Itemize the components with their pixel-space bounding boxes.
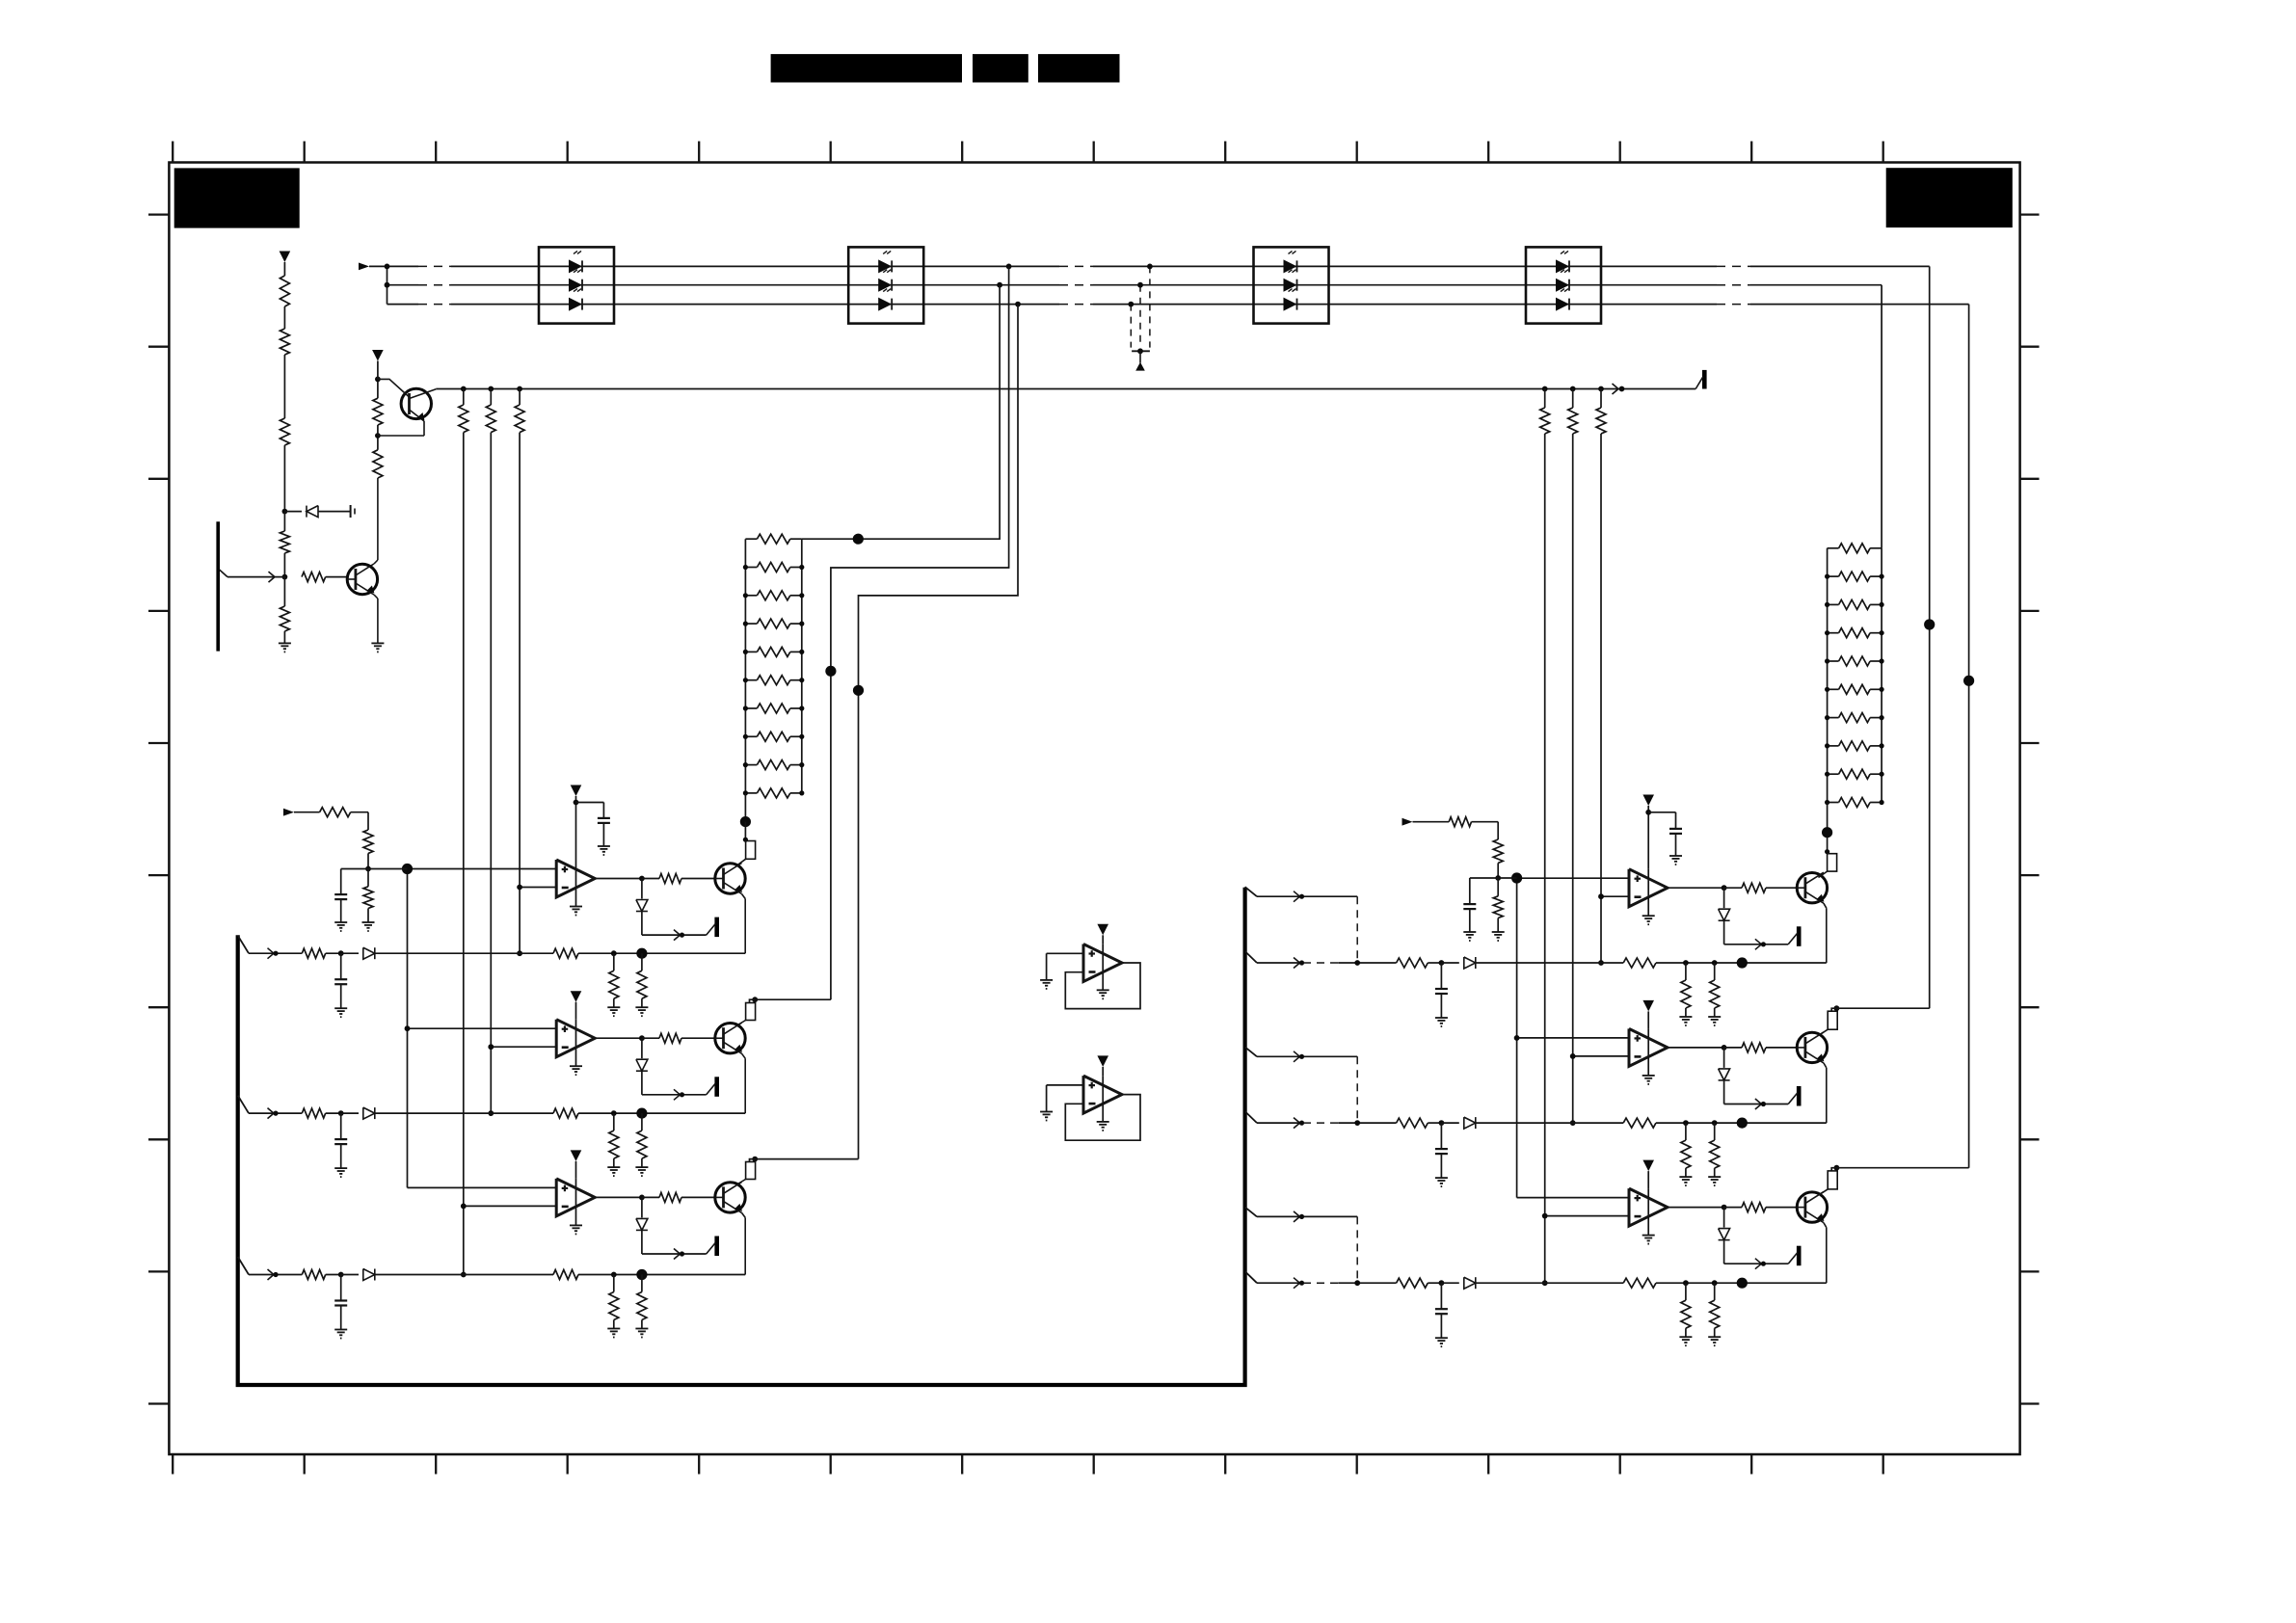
resistor to ground B — [1714, 1283, 1716, 1300]
resistor R6 base — [302, 572, 326, 582]
resistor bank left R1 — [461, 386, 467, 392]
diode stub — [641, 879, 643, 899]
border frame — [169, 163, 2019, 1455]
wire drop to QR3 collector — [1834, 1165, 1840, 1171]
wire emitter to feedback — [742, 1212, 746, 1217]
wire bus tap lower ch3 — [1245, 1271, 1257, 1283]
wire bank right verticals — [1544, 434, 1546, 1283]
power arrow — [571, 1150, 582, 1161]
wire bus line2 drop to ladder — [997, 282, 1002, 288]
resistor feedback — [553, 1270, 578, 1280]
wire bus line1 drop right — [1929, 266, 1931, 1008]
wire emitter to feedback — [742, 894, 746, 899]
power arrow — [1097, 1055, 1108, 1067]
wire drop to QL2 collector — [752, 997, 758, 1002]
resistor to ground right — [1497, 878, 1499, 896]
wire — [283, 355, 285, 418]
resistor to ground A — [1685, 1123, 1687, 1140]
dashed drop — [1356, 1056, 1358, 1123]
wire emitter to feedback — [1824, 1223, 1827, 1228]
op-amp ground — [1102, 945, 1104, 991]
wire bus tap lower ch1 — [1245, 951, 1257, 963]
wire output — [595, 878, 642, 880]
wire - input — [1601, 895, 1629, 897]
resistor ladder left R8 — [757, 732, 789, 741]
resistor to ground A — [1685, 963, 1687, 980]
op-amp buffer U5 — [1083, 945, 1122, 982]
power arrow — [571, 991, 582, 1002]
wire output — [1668, 887, 1724, 889]
wire Q2 collector up — [374, 560, 378, 564]
wire - input — [464, 1205, 556, 1207]
resistor feedback — [1623, 1278, 1656, 1288]
wire bus line2 — [387, 284, 419, 286]
wire ladder left rails — [744, 539, 746, 793]
resistor bank left R2 — [488, 386, 494, 392]
diode stub — [1723, 888, 1725, 908]
capacitor — [1440, 963, 1442, 989]
resistor to ground — [367, 869, 369, 887]
op-amp ground — [1647, 1028, 1649, 1076]
op-amp UR2 — [1629, 1028, 1668, 1066]
resistor to ground B — [641, 1113, 643, 1131]
power arrow ch1 right — [1642, 795, 1654, 807]
diode stub — [641, 1038, 643, 1058]
wire bus line3 drop — [1015, 302, 1021, 307]
wire emitter to feedback — [742, 1053, 746, 1058]
transistor QR2 — [1797, 1032, 1827, 1062]
resistor input — [1397, 1278, 1428, 1288]
wire bus line1 drop — [1006, 264, 1012, 270]
test point bars — [350, 505, 352, 518]
wire ladder to QL1 collector — [744, 793, 746, 822]
wire + input — [408, 1027, 557, 1029]
resistor ladder right R10 — [1839, 798, 1871, 808]
wire + node — [341, 868, 408, 870]
resistor ladder left R9 — [757, 760, 789, 770]
capacitor — [340, 1275, 342, 1301]
resistor bank right R2 — [1570, 386, 1576, 392]
transistor QL3 — [715, 1183, 745, 1212]
connector drop with dashed leads — [1130, 305, 1132, 348]
power arrow ch1 left — [571, 785, 582, 797]
resistor ladder left R5 — [757, 647, 789, 656]
wire long rail — [436, 388, 1695, 390]
wire bus line1 — [369, 265, 418, 267]
diode stub — [641, 1197, 643, 1217]
input arrow J3 — [1402, 818, 1413, 826]
resistor ladder right R8 — [1839, 741, 1871, 751]
connector pin — [714, 1237, 719, 1257]
resistor to ground A — [613, 953, 615, 971]
connector pin P1 — [1702, 370, 1707, 389]
resistor input — [302, 948, 325, 958]
op-amp UL2 — [556, 1020, 595, 1057]
op-amp ground — [1647, 1188, 1649, 1236]
resistor ladder right R6 — [1839, 684, 1871, 694]
resistor bank left R3 — [517, 386, 522, 392]
resistor R4 — [283, 512, 285, 531]
resistor ladder left R4 — [757, 619, 789, 628]
wire output — [595, 1037, 642, 1039]
transistor QR1 — [1797, 873, 1827, 903]
resistor feedback — [1623, 1118, 1656, 1128]
resistor R3 — [280, 418, 289, 445]
op-amp ground — [575, 1020, 577, 1067]
diode stub — [1723, 1048, 1725, 1068]
wire output — [595, 1196, 642, 1198]
wire bus tap left ch2 — [238, 1096, 249, 1114]
resistor to ground A — [613, 1113, 615, 1131]
op-amp ground — [575, 860, 577, 907]
resistor ladder left R2 — [757, 563, 789, 572]
supply arrow up — [1135, 362, 1145, 371]
resistor base — [642, 878, 659, 880]
transistor QL1 — [715, 864, 745, 893]
wire + input — [1517, 877, 1629, 879]
resistor input — [1397, 958, 1428, 968]
connector pin — [714, 1077, 719, 1097]
wire Q1 emitter loop — [410, 410, 425, 421]
resistor ladder left R3 — [757, 591, 789, 600]
resistor bank right R1 — [1542, 386, 1548, 392]
resistor input — [320, 808, 351, 817]
wire - input — [520, 887, 556, 889]
wire + input to ground — [1047, 952, 1083, 954]
resistor input — [302, 1270, 325, 1280]
op-amp ground — [575, 1179, 577, 1226]
resistor ladder right R9 — [1839, 769, 1871, 779]
diode block D3 — [1254, 247, 1329, 323]
wire + input — [1517, 1037, 1629, 1039]
diode — [341, 1112, 359, 1114]
thick bus line — [238, 888, 1245, 1385]
bus bar stub — [216, 521, 220, 651]
capacitor C4 — [1469, 878, 1471, 904]
resistor to ground B — [1714, 963, 1716, 980]
resistor base — [642, 1037, 659, 1039]
resistor R8 — [377, 425, 379, 436]
resistor input — [302, 1108, 325, 1118]
wire bank left verticals — [463, 433, 465, 1275]
resistor feedback — [553, 948, 578, 958]
diode — [341, 952, 359, 954]
top-left label redacted — [174, 168, 300, 227]
resistor to ground B — [641, 953, 643, 971]
power arrow — [1642, 1160, 1654, 1172]
wire Q2 emitter to ground — [374, 595, 378, 599]
wire bus tap upper ch3 — [1245, 1207, 1257, 1216]
wire bus line3 drop right — [1968, 305, 1970, 1168]
diode — [1441, 962, 1458, 964]
resistor ladder right R2 — [1839, 572, 1871, 581]
resistor divider — [367, 812, 369, 830]
resistor base — [1724, 1207, 1742, 1209]
wire bus tap upper ch1 — [1245, 887, 1257, 896]
diode — [1441, 1122, 1458, 1124]
frame tick marks — [172, 142, 174, 163]
wire + node right — [1470, 877, 1517, 879]
resistor base — [642, 1196, 659, 1198]
power arrow — [1642, 1000, 1654, 1012]
capacitor — [340, 1113, 342, 1139]
diode block D4 — [1526, 247, 1601, 323]
resistor ladder right R1 — [1839, 544, 1871, 553]
connector pin — [714, 918, 719, 938]
ground — [279, 642, 291, 644]
resistor ladder right R5 — [1839, 656, 1871, 666]
bus tie vertical — [387, 266, 388, 304]
transistor Q1 — [401, 388, 431, 418]
wire Q1 base — [378, 379, 410, 397]
op-amp UR3 — [1629, 1188, 1668, 1226]
resistor to ground A — [613, 1275, 615, 1292]
wire Q1 collector to rail — [410, 389, 437, 399]
power arrow V1 — [280, 252, 291, 263]
resistor ladder right R7 — [1839, 713, 1871, 723]
resistor base — [1724, 1047, 1742, 1049]
wire + input — [1517, 1197, 1629, 1199]
title block redacted — [771, 54, 962, 82]
capacitor — [340, 953, 342, 979]
wire output — [1668, 1207, 1724, 1209]
wire drop to QL3 collector — [752, 1157, 758, 1162]
resistor R2 — [283, 306, 285, 329]
wire bus line3 — [387, 304, 419, 306]
diode block D2 — [848, 247, 923, 323]
resistor R7 — [373, 450, 383, 478]
connector pin — [1797, 1086, 1802, 1106]
dashed drop — [1356, 1216, 1358, 1283]
wire emitter to feedback — [1824, 1063, 1827, 1068]
capacitor C3 — [1648, 811, 1675, 813]
wire bus line2 to right ladder — [1881, 285, 1882, 548]
resistor input right — [1449, 817, 1471, 827]
dashed drop — [1356, 896, 1358, 963]
power arrow V2 — [372, 350, 384, 361]
resistor ladder left R7 — [757, 704, 789, 713]
wire + input to ground — [1047, 1084, 1083, 1086]
op-amp UR1 — [1629, 869, 1668, 907]
wire emitter to feedback — [1824, 903, 1827, 908]
resistor divider right — [1497, 822, 1499, 839]
top-right label redacted — [1886, 168, 2013, 227]
transistor Q2 — [347, 564, 377, 594]
capacitor C2 — [340, 869, 342, 895]
wire + input — [408, 1186, 557, 1188]
transistor QL2 — [715, 1024, 745, 1053]
op-amp ground — [1102, 1076, 1104, 1122]
connector pin — [1797, 926, 1802, 946]
wire output — [1668, 1047, 1724, 1049]
power arrow — [1097, 924, 1108, 936]
wire + bus right — [1516, 878, 1518, 1198]
wire + bus left — [407, 869, 409, 1188]
transistor QR3 — [1797, 1192, 1827, 1222]
op-amp ground — [1647, 869, 1649, 917]
resistor feedback — [1623, 958, 1656, 968]
capacitor — [1440, 1123, 1442, 1149]
op-amp buffer U6 — [1083, 1076, 1122, 1113]
op-amp UL1 — [556, 860, 595, 897]
resistor input — [1397, 1118, 1428, 1128]
wire ladder right rails — [1827, 548, 1829, 803]
wire feedback loop — [1065, 963, 1140, 1009]
resistor ladder left R1 — [757, 534, 789, 544]
resistor ladder left R6 — [757, 676, 789, 685]
wire bus tap left ch1 — [238, 936, 249, 954]
input arrow J2 — [283, 809, 294, 816]
wire bus tap left ch3 — [238, 1257, 249, 1275]
wire drop to QR2 collector — [1834, 1005, 1840, 1011]
resistor chain R1 — [283, 262, 285, 276]
resistor to ground B — [641, 1275, 643, 1292]
diode stub — [1723, 1208, 1725, 1228]
capacitor — [1440, 1283, 1442, 1309]
resistor to ground B — [1714, 1123, 1716, 1140]
resistor ladder right R4 — [1839, 628, 1871, 638]
input arrow J1 — [359, 263, 369, 271]
wire - input — [491, 1046, 556, 1048]
connector pin — [1797, 1246, 1802, 1266]
wire bus tap lower ch2 — [1245, 1111, 1257, 1123]
op-amp UL3 — [556, 1179, 595, 1216]
wire bus tap upper ch2 — [1245, 1047, 1257, 1056]
wire feedback loop — [1065, 1095, 1140, 1141]
wire + input — [408, 868, 557, 870]
diode — [341, 1274, 359, 1276]
wire with arrow to Q2 base — [220, 570, 228, 577]
resistor feedback — [553, 1108, 578, 1118]
wire - input — [1573, 1055, 1629, 1057]
diode block D1 — [539, 247, 614, 323]
resistor ladder right R3 — [1839, 599, 1871, 609]
diode D5 — [282, 509, 288, 515]
resistor ladder left R10 — [757, 788, 789, 798]
wire - input — [1545, 1215, 1629, 1217]
resistor base — [1724, 887, 1742, 889]
capacitor C1 — [576, 802, 604, 804]
diode — [1441, 1282, 1458, 1284]
wire ladder to QR1 collector — [1827, 803, 1829, 852]
resistor bank right R3 — [1598, 386, 1604, 392]
resistor R5 — [282, 574, 288, 580]
resistor to ground A — [1685, 1283, 1687, 1300]
